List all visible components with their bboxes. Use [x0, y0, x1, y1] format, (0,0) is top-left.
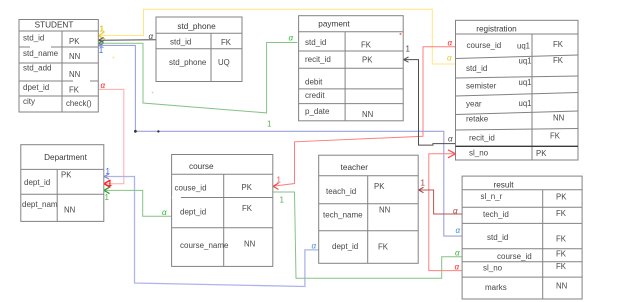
arrow black into payment	[404, 57, 409, 62]
svg-text:1: 1	[99, 46, 104, 55]
junction dot 2	[157, 130, 159, 132]
table Department	[21, 145, 104, 222]
svg-text:FK: FK	[553, 40, 564, 49]
svg-text:PK: PK	[374, 182, 385, 191]
svg-text:1: 1	[100, 25, 105, 34]
svg-text:year: year	[466, 100, 482, 109]
arrow yellow into STUDENT	[99, 32, 106, 40]
svg-text:course_id: course_id	[497, 252, 532, 261]
svg-text:course_id: course_id	[467, 41, 502, 50]
svg-text:1: 1	[108, 179, 113, 188]
svg-text:PK: PK	[536, 149, 547, 158]
svg-text:tech_id: tech_id	[483, 210, 509, 219]
svg-text:std_phone: std_phone	[169, 58, 207, 67]
arrow red into course	[273, 183, 279, 189]
arrow blue into Department	[104, 174, 109, 179]
svg-text:NN: NN	[553, 114, 564, 123]
svg-text:registration: registration	[476, 25, 517, 34]
arrow blue into STUDENT	[99, 43, 104, 47]
svg-text:1: 1	[277, 176, 282, 185]
svg-text:semister: semister	[466, 82, 497, 91]
svg-text:teach_id: teach_id	[326, 187, 356, 196]
svg-text:retake: retake	[466, 115, 489, 124]
svg-text:FK: FK	[556, 235, 567, 244]
svg-text:FK: FK	[556, 250, 567, 259]
svg-text:result: result	[493, 180, 514, 189]
svg-text:std_id: std_id	[305, 38, 326, 47]
svg-text:p_date: p_date	[305, 107, 330, 116]
svg-text:marks: marks	[485, 283, 507, 292]
svg-text:course_name: course_name	[180, 241, 229, 250]
svg-text:payment: payment	[318, 20, 350, 29]
svg-text:sl_n_r: sl_n_r	[481, 192, 503, 201]
wire green Department.dept_id to course.dept_id	[104, 190, 172, 216]
svg-text:α: α	[448, 38, 453, 47]
svg-text:NN: NN	[69, 52, 80, 61]
svg-text:FK: FK	[242, 204, 253, 213]
svg-text:std_id: std_id	[170, 38, 191, 47]
svg-text:PK: PK	[242, 183, 253, 192]
table std_phone	[156, 17, 242, 82]
svg-text:NN: NN	[244, 240, 255, 249]
svg-text:std_add: std_add	[23, 64, 51, 73]
wire black STUDENT.std_id to std_phone.std_id	[98, 39, 156, 41]
svg-text:uq1: uq1	[519, 99, 532, 108]
svg-text:α: α	[455, 263, 460, 272]
svg-text:std_phone: std_phone	[177, 22, 216, 31]
wire yellow STUDENT.std_id to registration.std_id	[98, 9, 455, 64]
svg-text:credit: credit	[305, 91, 325, 100]
wire red registration.course_id to course.couse_id	[273, 47, 456, 187]
svg-text:sl_no: sl_no	[469, 149, 489, 158]
svg-text:PK: PK	[556, 192, 567, 201]
svg-text:dept_id: dept_id	[24, 178, 50, 187]
junction dot 1	[134, 130, 137, 133]
svg-text:NN: NN	[69, 70, 80, 79]
svg-text:PK: PK	[362, 56, 373, 65]
svg-text:teacher: teacher	[341, 163, 369, 172]
svg-text:dept_nam: dept_nam	[22, 200, 58, 209]
svg-text:std_id: std_id	[23, 34, 44, 43]
arrow black into STUDENT	[99, 38, 104, 43]
arrow maroon into teacher	[419, 187, 424, 192]
svg-text:PK: PK	[61, 171, 72, 180]
svg-text:debit: debit	[305, 78, 323, 87]
svg-text:FK: FK	[69, 86, 80, 95]
wire maroon teacher.teach_id to result.tech_id	[418, 190, 462, 214]
white gap on STUDENT row line	[30, 46, 51, 48]
svg-text:α: α	[448, 134, 453, 143]
svg-text:NN: NN	[556, 282, 567, 291]
svg-text:check(): check()	[66, 99, 92, 108]
svg-text:FK: FK	[550, 132, 561, 141]
arrow red into Department	[104, 180, 111, 187]
white gap on STUDENT dpet row line	[73, 80, 90, 82]
arrow red into registration	[448, 150, 456, 158]
svg-text:1: 1	[280, 196, 285, 205]
table result	[462, 176, 582, 299]
svg-text:α: α	[101, 81, 106, 90]
wire blue Department.dept_id to teacher.dept_id	[104, 177, 320, 287]
svg-text:std_name: std_name	[23, 49, 59, 58]
svg-text:1: 1	[267, 120, 272, 129]
svg-text:tech_name: tech_name	[323, 211, 363, 220]
svg-text:1: 1	[105, 193, 110, 202]
svg-text:1: 1	[421, 179, 426, 188]
svg-text:α: α	[453, 207, 458, 216]
svg-text:dept_id: dept_id	[180, 208, 206, 217]
svg-text:recit_id: recit_id	[305, 55, 331, 64]
svg-text:dept_id: dept_id	[332, 242, 358, 251]
svg-text:std_id: std_id	[487, 233, 508, 242]
svg-text:PK: PK	[69, 37, 80, 46]
svg-text:uq1: uq1	[519, 78, 532, 87]
svg-text:STUDENT: STUDENT	[35, 21, 74, 30]
svg-text:Department: Department	[44, 153, 88, 162]
arrow green into STUDENT	[99, 41, 104, 46]
table course	[172, 155, 273, 267]
speck red near payment	[400, 33, 402, 35]
svg-text:couse_id: couse_id	[175, 184, 207, 193]
wire blue STUDENT.std_id to result.std_id	[98, 45, 462, 236]
svg-text:α: α	[312, 242, 317, 251]
table STUDENT	[19, 20, 98, 113]
svg-text:recit_id: recit_id	[469, 134, 495, 143]
svg-text:NN: NN	[379, 206, 390, 215]
table payment	[299, 16, 404, 121]
table teacher	[319, 155, 419, 263]
wire green course.couse_id to result.course_id	[273, 192, 462, 278]
svg-text:FK: FK	[553, 56, 564, 65]
svg-text:FK: FK	[556, 262, 567, 271]
svg-text:FK: FK	[556, 209, 567, 218]
svg-text:NN: NN	[362, 110, 373, 119]
svg-text:FK: FK	[378, 243, 389, 252]
svg-text:uq1: uq1	[519, 57, 532, 66]
svg-text:α: α	[447, 54, 452, 63]
svg-text:FK: FK	[361, 41, 372, 50]
wire red registration.sl_no to result.sl_no	[429, 154, 462, 271]
wire green STUDENT.std_id to payment.std_id	[98, 43, 297, 113]
speck yellow	[113, 57, 115, 59]
table registration	[456, 20, 579, 160]
svg-text:dpet_id: dpet_id	[23, 83, 49, 92]
svg-text:sl_no: sl_no	[483, 264, 503, 273]
white gap on course row line	[172, 196, 181, 198]
wire black payment.recit_id to registration.recit_id	[403, 60, 455, 146]
svg-text:uq1: uq1	[517, 42, 530, 51]
arrow green into Department	[104, 187, 110, 193]
svg-text:α: α	[455, 249, 460, 258]
svg-text:α: α	[456, 226, 461, 235]
svg-text:UQ: UQ	[218, 58, 230, 67]
svg-text:1: 1	[406, 45, 411, 54]
speck green faint	[152, 92, 154, 94]
svg-text:α: α	[149, 32, 154, 41]
svg-text:α: α	[162, 208, 167, 217]
svg-text:NN: NN	[64, 206, 75, 215]
wire red STUDENT.dpet_id to Department.dept_id	[98, 89, 124, 183]
svg-text:course: course	[189, 162, 214, 171]
svg-text:α: α	[289, 33, 294, 42]
svg-text:city: city	[23, 97, 35, 106]
svg-text:FK: FK	[221, 38, 232, 47]
svg-text:std_id: std_id	[466, 64, 487, 73]
svg-text:1: 1	[106, 167, 111, 176]
